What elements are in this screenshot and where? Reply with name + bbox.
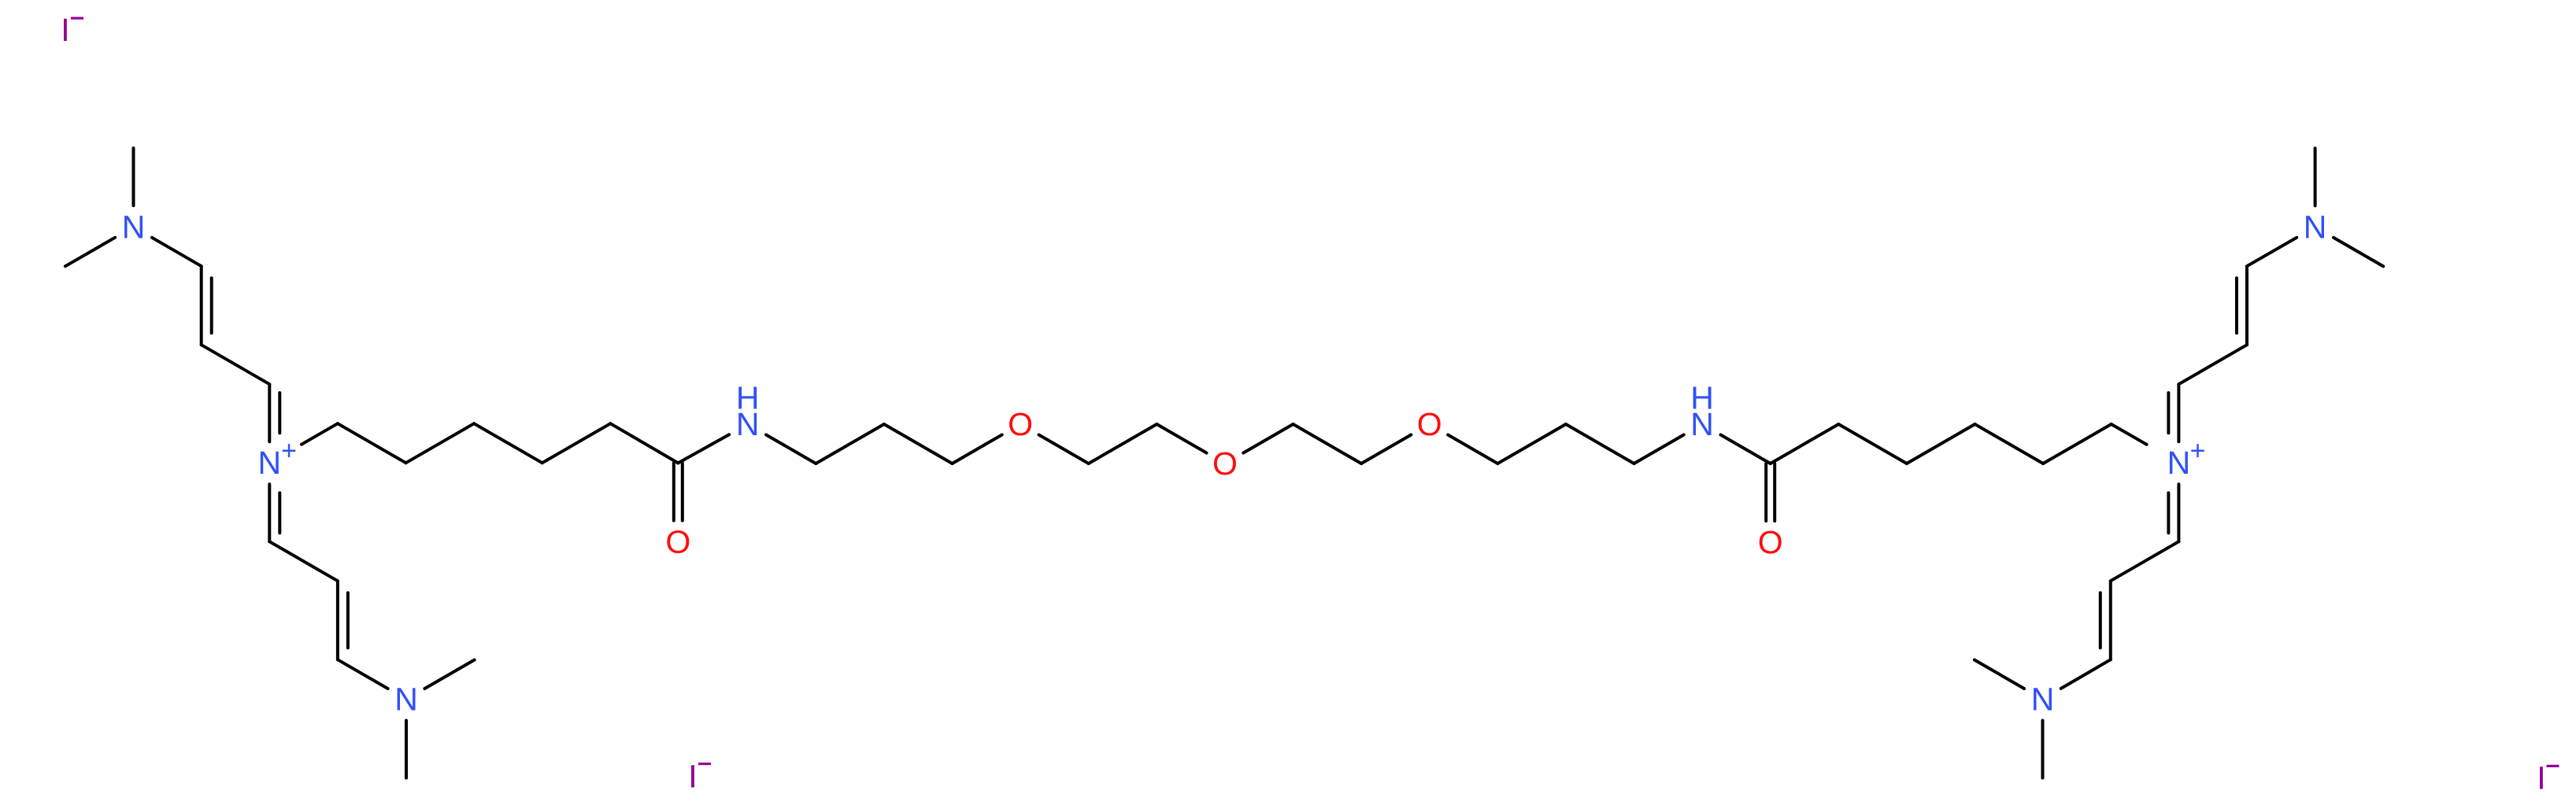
bond CH2-O3 bbox=[1361, 435, 1411, 464]
svg-text:N: N bbox=[2304, 209, 2327, 245]
carbonyl C=O right bbox=[1764, 464, 1767, 521]
svg-text:N: N bbox=[2031, 682, 2055, 718]
chain bond CH2-CH2 c bbox=[474, 423, 542, 463]
bond CH2-O2 bbox=[1157, 424, 1206, 453]
methyl on left top N (down-left) bbox=[65, 238, 115, 267]
bond CH2-N amide right bbox=[1634, 435, 1684, 464]
methyl on left top N (up) bbox=[132, 148, 135, 205]
bond C=C lower-right vertical bbox=[2109, 581, 2112, 659]
chain bond CH2-CH2 f bbox=[1907, 424, 1975, 464]
bond CH2-CH2 glycol1 bbox=[1089, 424, 1157, 464]
bond C-N to bottom-right NMe2 bbox=[2061, 659, 2111, 689]
svg-text:N: N bbox=[122, 209, 146, 245]
svg-text:O: O bbox=[1758, 524, 1783, 560]
bond CH2-CH2 glycol2 bbox=[1294, 424, 1362, 464]
bond O2-CH2 bbox=[1243, 424, 1293, 453]
svg-text:N: N bbox=[1690, 406, 1714, 442]
svg-text:O: O bbox=[665, 524, 690, 560]
methyl on right top N (down-right) bbox=[2334, 238, 2383, 267]
chain bond CH2-CH2 a bbox=[338, 423, 406, 463]
chain bond N+L-CH2 bbox=[302, 423, 338, 445]
svg-text:I: I bbox=[61, 12, 69, 48]
bond C=C upper-right vertical bbox=[2245, 266, 2248, 345]
methyl on right top N (up) bbox=[2314, 148, 2317, 205]
bond C-C upper-right diag bbox=[2178, 345, 2247, 384]
chain bond CH2-CH2 d bbox=[542, 423, 611, 463]
propyl bond b left bbox=[884, 424, 953, 464]
bond C-C upper-left diag bbox=[202, 345, 270, 384]
methyl on right bottom N (up-left) bbox=[1975, 660, 2024, 689]
methyl on left bottom N (up-right) bbox=[424, 660, 474, 689]
methyl on left bottom N (down) bbox=[405, 721, 408, 778]
bond N+L=C vertical down bbox=[268, 484, 271, 541]
bond N+R=C vertical down bbox=[2177, 484, 2180, 541]
amide N-CH2 left bbox=[766, 435, 816, 464]
minus sign iodide 2 bbox=[698, 763, 711, 765]
svg-text:O: O bbox=[1417, 406, 1442, 442]
amide C-N left bbox=[678, 434, 729, 463]
bond C-N to top-right NMe2 bbox=[2247, 238, 2297, 266]
chain bond CH2-C(=O) bbox=[610, 423, 678, 463]
chain bond CH2-CH2 g bbox=[1975, 424, 2044, 464]
svg-text:N: N bbox=[736, 406, 760, 442]
svg-text:I: I bbox=[2537, 760, 2545, 796]
svg-text:I: I bbox=[688, 759, 697, 795]
bond N+R=C vertical up bbox=[2177, 384, 2180, 441]
svg-text:O: O bbox=[1212, 445, 1238, 482]
bond C=C lower-left vertical bbox=[336, 581, 339, 659]
minus sign iodide 3 bbox=[2547, 765, 2559, 767]
minus sign iodide 1 bbox=[71, 17, 83, 20]
bond O1-CH2 bbox=[1039, 435, 1089, 464]
svg-text:N: N bbox=[257, 445, 281, 481]
svg-text:+: + bbox=[281, 436, 297, 466]
propyl bond a right bbox=[1497, 424, 1566, 464]
bond C-N to top NMe2 bbox=[152, 238, 202, 266]
chain bond CH2-N+R bbox=[2112, 424, 2147, 445]
svg-text:N: N bbox=[2167, 445, 2191, 481]
carbonyl C=O left bbox=[672, 463, 675, 520]
chain bond C(=O)-CH2 right bbox=[1771, 424, 1839, 464]
chain bond CH2-CH2 h bbox=[2043, 424, 2112, 464]
chain bond CH2-CH2 b bbox=[406, 423, 475, 463]
bond C-C lower-right diag bbox=[2111, 541, 2179, 581]
svg-text:O: O bbox=[1008, 406, 1033, 442]
methyl on right bottom N (down) bbox=[2041, 721, 2045, 778]
bond C-N to bottom NMe2 bbox=[338, 659, 388, 689]
bond CH2-O1 bbox=[953, 435, 1002, 464]
propyl bond b right bbox=[1566, 424, 1634, 464]
svg-text:+: + bbox=[2190, 436, 2206, 466]
svg-text:N: N bbox=[394, 682, 418, 718]
propyl bond a left bbox=[816, 424, 884, 464]
bond O3-CH2 bbox=[1448, 435, 1497, 464]
bond N+L=C vertical up bbox=[268, 384, 271, 441]
chain bond CH2-CH2 e bbox=[1838, 424, 1907, 464]
bond C=C upper-left vertical bbox=[200, 266, 203, 345]
bond C-C lower-left diag bbox=[269, 541, 338, 581]
amide N-C right bbox=[1721, 435, 1771, 464]
